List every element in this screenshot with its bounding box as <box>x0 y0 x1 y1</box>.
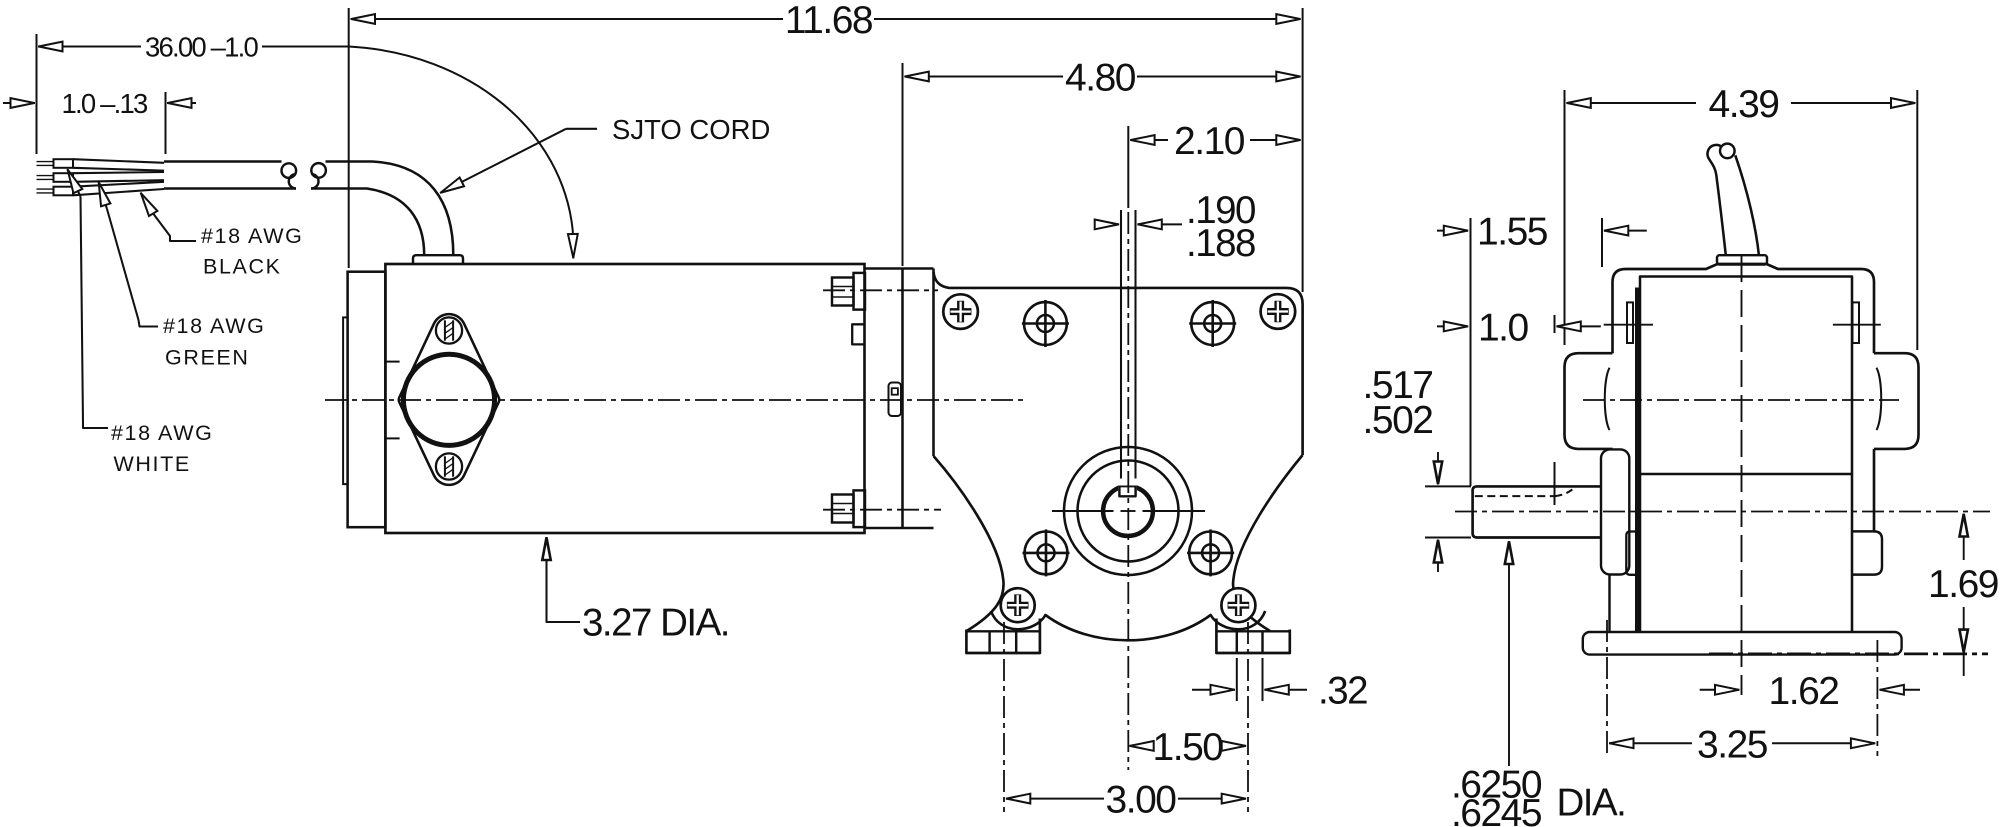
svg-text:36.00 –1.0: 36.00 –1.0 <box>145 32 258 63</box>
svg-text:3.25: 3.25 <box>1697 723 1768 766</box>
svg-text:SJTO CORD: SJTO CORD <box>612 114 770 145</box>
svg-text:4.80: 4.80 <box>1065 57 1136 100</box>
svg-text:1.69: 1.69 <box>1928 563 1998 606</box>
svg-text:1.50: 1.50 <box>1153 726 1224 769</box>
svg-text:1.0 –.13: 1.0 –.13 <box>62 88 148 119</box>
svg-text:3.00: 3.00 <box>1106 779 1177 822</box>
svg-text:4.39: 4.39 <box>1709 83 1779 126</box>
svg-text:.6245: .6245 <box>1451 792 1542 827</box>
svg-text:11.68: 11.68 <box>785 0 872 42</box>
svg-text:WHITE: WHITE <box>114 452 191 476</box>
svg-text:DIA.: DIA. <box>1557 782 1626 825</box>
svg-text:#18 AWG: #18 AWG <box>111 421 213 445</box>
svg-text:.188: .188 <box>1186 222 1255 265</box>
svg-text:2.10: 2.10 <box>1174 120 1245 163</box>
svg-text:1.0: 1.0 <box>1478 306 1529 349</box>
svg-text:.32: .32 <box>1318 670 1367 713</box>
svg-text:#18 AWG: #18 AWG <box>163 314 265 338</box>
svg-text:GREEN: GREEN <box>165 346 249 370</box>
svg-text:1.62: 1.62 <box>1769 670 1839 713</box>
svg-text:.502: .502 <box>1363 399 1433 442</box>
svg-text:3.27 DIA.: 3.27 DIA. <box>582 602 729 645</box>
svg-text:#18 AWG: #18 AWG <box>201 224 303 248</box>
svg-text:1.55: 1.55 <box>1477 211 1548 254</box>
svg-text:BLACK: BLACK <box>203 255 282 279</box>
